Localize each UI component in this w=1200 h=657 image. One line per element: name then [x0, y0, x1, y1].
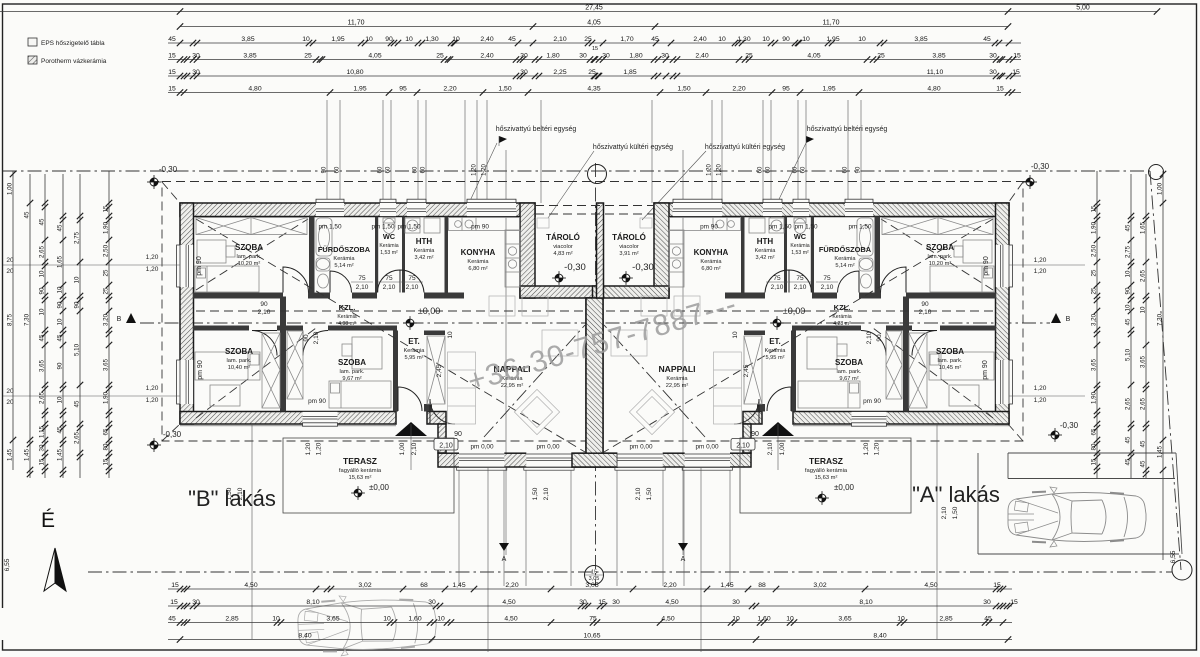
svg-text:±0,00: ±0,00: [369, 483, 390, 492]
svg-text:4,80: 4,80: [248, 86, 261, 93]
KZL r: [832, 303, 851, 327]
svg-text:10: 10: [786, 616, 794, 623]
svg-text:KZL.: KZL.: [834, 303, 851, 312]
svg-text:1,00: 1,00: [779, 442, 786, 455]
svg-text:pm 1,50: pm 1,50: [794, 224, 818, 231]
svg-text:45: 45: [39, 218, 46, 225]
ET south step: [424, 404, 432, 412]
svg-text:90: 90: [751, 431, 759, 438]
FURDOSZOBA: [318, 245, 371, 269]
pm labels: [196, 224, 990, 451]
svg-text:65: 65: [103, 428, 110, 435]
axis circle top right: [1149, 165, 1164, 180]
svg-text:Kerámia: Kerámia: [333, 256, 355, 262]
svg-text:10: 10: [272, 616, 280, 623]
window south living 1: [459, 452, 504, 468]
svg-text:1,95: 1,95: [331, 36, 344, 43]
svg-text:8,10: 8,10: [306, 599, 319, 606]
svg-text:90: 90: [1125, 287, 1132, 294]
axis circle bottom right (partial): [1172, 560, 1192, 580]
svg-text:15: 15: [1010, 599, 1018, 606]
svg-text:45: 45: [168, 36, 176, 43]
svg-text:6,55: 6,55: [4, 558, 11, 571]
furniture ET cabinet: [427, 336, 445, 404]
SZOBA 10,20: [235, 243, 263, 267]
svg-text:10: 10: [732, 331, 739, 339]
svg-text:90: 90: [57, 362, 64, 369]
svg-text:4,50: 4,50: [665, 599, 678, 606]
svg-text:1,90: 1,90: [103, 391, 110, 404]
svg-text:pm 90: pm 90: [863, 398, 881, 405]
NAPPALI left: [493, 364, 530, 389]
furniture SZOBA2 (10,40): [195, 333, 280, 408]
roof overhang dashed rectangle: [162, 182, 1023, 442]
svg-text:2,75: 2,75: [1125, 245, 1132, 258]
window south living 2: [526, 452, 571, 468]
svg-text:pm 0,00: pm 0,00: [470, 444, 494, 451]
svg-text:1,20: 1,20: [316, 442, 323, 455]
storage divider wall: [597, 203, 604, 298]
svg-text:3,85: 3,85: [241, 36, 254, 43]
svg-text:2,20: 2,20: [663, 582, 676, 589]
door SZOBA3: [303, 331, 328, 356]
svg-text:2,10: 2,10: [635, 487, 642, 500]
svg-text:75: 75: [796, 275, 804, 282]
svg-text:1,20: 1,20: [863, 442, 870, 455]
svg-text:60: 60: [793, 166, 799, 173]
svg-text:11,10: 11,10: [927, 69, 944, 76]
svg-text:60: 60: [413, 166, 419, 173]
svg-text:pm 1,50: pm 1,50: [371, 224, 395, 231]
svg-text:1,45: 1,45: [57, 448, 64, 461]
svg-text:TÁROLÓ: TÁROLÓ: [546, 233, 580, 242]
svg-text:2,40: 2,40: [695, 53, 708, 60]
svg-text:30: 30: [661, 53, 669, 60]
ET r: [765, 337, 787, 361]
svg-text:60: 60: [386, 166, 392, 173]
section line B-B dash-dot: [140, 322, 1050, 324]
svg-text:2,10: 2,10: [553, 36, 566, 43]
partition WC/HTH: [402, 217, 405, 293]
svg-text:25: 25: [103, 269, 110, 276]
svg-text:1,65: 1,65: [1140, 221, 1147, 234]
svg-text:30: 30: [520, 69, 528, 76]
svg-text:pm 90: pm 90: [471, 224, 489, 231]
svg-text:-0,30: -0,30: [163, 430, 182, 439]
svg-text:3,65: 3,65: [838, 616, 851, 623]
svg-text:viacolor: viacolor: [619, 244, 639, 250]
svg-text:ET.: ET.: [408, 337, 420, 346]
svg-text:hőszivattyú kültéri egység: hőszivattyú kültéri egység: [593, 144, 673, 151]
svg-text:15: 15: [170, 599, 178, 606]
window top WC: [380, 199, 396, 216]
svg-text:hőszivattyú beltéri egység: hőszivattyú beltéri egység: [496, 126, 577, 133]
svg-text:45: 45: [74, 400, 81, 407]
SZOBA 10,40: [225, 347, 253, 371]
svg-text:1,60: 1,60: [408, 616, 421, 623]
HTH r: [755, 237, 777, 261]
svg-text:15,63 m²: 15,63 m²: [349, 475, 372, 481]
svg-text:2,75: 2,75: [74, 231, 81, 244]
svg-text:5,10: 5,10: [74, 343, 81, 356]
svg-text:22,95 m²: 22,95 m²: [666, 383, 689, 389]
svg-text:60: 60: [421, 166, 427, 173]
svg-text:1,20: 1,20: [707, 164, 713, 176]
svg-text:2,85: 2,85: [225, 616, 238, 623]
svg-text:10: 10: [437, 616, 445, 623]
svg-text:25: 25: [877, 53, 885, 60]
svg-text:2,40: 2,40: [480, 53, 493, 60]
svg-text:6,80 m²: 6,80 m²: [701, 266, 720, 272]
svg-text:27,45: 27,45: [585, 5, 603, 12]
svg-text:WC: WC: [383, 232, 396, 241]
svg-text:pm 1,50: pm 1,50: [768, 224, 792, 231]
svg-text:15: 15: [592, 46, 598, 52]
svg-text:10: 10: [447, 331, 454, 339]
svg-text:75: 75: [385, 275, 393, 282]
property boundary dash-dot bottom: [88, 571, 1172, 573]
svg-text:1,45: 1,45: [7, 448, 14, 461]
svg-text:15: 15: [1091, 205, 1098, 212]
svg-text:10: 10: [1125, 304, 1132, 311]
svg-text:TERASZ: TERASZ: [809, 456, 843, 466]
svg-text:10: 10: [302, 36, 310, 43]
site walkway lines: [252, 424, 937, 652]
svg-text:25: 25: [588, 69, 596, 76]
svg-text:1,95: 1,95: [826, 36, 839, 43]
svg-text:10: 10: [39, 270, 46, 277]
svg-text:10: 10: [39, 308, 46, 315]
svg-text:1,95: 1,95: [822, 86, 835, 93]
svg-text:15: 15: [171, 582, 179, 589]
svg-text:25: 25: [584, 36, 592, 43]
section marker B left: [126, 313, 136, 323]
svg-text:EPS hőszigetelő tábla: EPS hőszigetelő tábla: [41, 40, 105, 47]
svg-text:90: 90: [303, 334, 310, 342]
svg-text:3,05: 3,05: [585, 582, 598, 589]
svg-text:SZOBA: SZOBA: [936, 347, 964, 356]
svg-text:10: 10: [365, 36, 373, 43]
svg-text:45: 45: [1125, 224, 1132, 231]
svg-text:1,50: 1,50: [677, 86, 690, 93]
svg-text:4,05: 4,05: [587, 20, 601, 27]
svg-text:5,10: 5,10: [1125, 348, 1132, 361]
svg-text:10,20 m²: 10,20 m²: [238, 261, 261, 267]
svg-text:"A" lakás: "A" lakás: [912, 482, 1000, 507]
outer wall left: [180, 203, 194, 424]
projection lines top: [327, 100, 861, 203]
svg-text:Kerámia: Kerámia: [414, 248, 436, 254]
svg-text:Kerámia: Kerámia: [700, 259, 722, 265]
svg-text:8,40: 8,40: [298, 633, 311, 640]
svg-text:10: 10: [1140, 306, 1147, 313]
svg-text:30: 30: [612, 599, 620, 606]
svg-text:80: 80: [1091, 443, 1098, 450]
storage floor mark: [537, 218, 549, 228]
svg-text:2,10: 2,10: [258, 309, 271, 316]
svg-text:6,55: 6,55: [1170, 550, 1177, 563]
WC r: [790, 232, 809, 256]
svg-text:3,42 m²: 3,42 m²: [415, 255, 434, 261]
svg-text:2,10: 2,10: [543, 487, 550, 500]
svg-text:25: 25: [1091, 287, 1098, 294]
svg-text:1,45: 1,45: [1157, 445, 1164, 458]
level line corridor: [196, 310, 585, 312]
svg-text:45: 45: [1125, 458, 1132, 465]
svg-text:3,85: 3,85: [914, 36, 927, 43]
wall stub at entrance corner: [427, 412, 446, 425]
svg-text:4,05: 4,05: [368, 53, 381, 60]
svg-text:1,20: 1,20: [717, 164, 723, 176]
svg-text:Kerámia: Kerámia: [337, 314, 356, 320]
driveway: [978, 453, 1182, 554]
svg-text:pm 0,00: pm 0,00: [695, 444, 719, 451]
partition HTH/KONYHA: [445, 217, 449, 293]
svg-text:30: 30: [989, 69, 997, 76]
svg-text:45: 45: [984, 616, 992, 623]
svg-text:2,10: 2,10: [736, 443, 750, 450]
svg-text:pm 1,50: pm 1,50: [397, 224, 421, 231]
svg-text:45: 45: [1140, 440, 1147, 447]
svg-text:1,20: 1,20: [146, 254, 159, 261]
svg-text:30: 30: [989, 53, 997, 60]
door FURDOSZOBA: [330, 271, 352, 293]
furniture SZOBA1: wardrobe: [196, 218, 307, 235]
svg-text:15: 15: [591, 570, 597, 576]
svg-text:45: 45: [651, 36, 659, 43]
door WC: [378, 270, 401, 293]
svg-text:SZOBA: SZOBA: [835, 358, 863, 367]
svg-text:75: 75: [823, 275, 831, 282]
svg-text:1,50: 1,50: [952, 506, 959, 519]
svg-text:10: 10: [1125, 270, 1132, 277]
fixture WC: [383, 218, 395, 234]
svg-text:FÜRDŐSZOBA: FÜRDŐSZOBA: [819, 245, 872, 254]
svg-text:30: 30: [520, 53, 528, 60]
svg-text:fagyálló kerámia: fagyálló kerámia: [805, 468, 848, 474]
svg-text:SZOBA: SZOBA: [225, 347, 253, 356]
svg-text:10: 10: [897, 616, 905, 623]
svg-text:11,70: 11,70: [348, 20, 365, 27]
svg-text:ET.: ET.: [769, 337, 781, 346]
svg-text:HTH: HTH: [757, 237, 774, 246]
window bottom SZOBA3: [303, 412, 338, 427]
svg-text:30: 30: [192, 53, 200, 60]
partition FURDO/WC: [375, 217, 378, 293]
svg-text:Porotherm vázkerámia: Porotherm vázkerámia: [41, 58, 107, 65]
corridor north wall segments: [193, 293, 283, 299]
svg-text:pm 1,50: pm 1,50: [318, 224, 342, 231]
svg-text:3,42 m²: 3,42 m²: [756, 255, 775, 261]
svg-text:90: 90: [876, 334, 883, 342]
svg-text:-0,30: -0,30: [159, 165, 178, 174]
door ET/SZOBA3: [398, 387, 422, 411]
svg-text:1,90: 1,90: [103, 221, 110, 234]
svg-text:95: 95: [782, 86, 790, 93]
party wall south pier: [572, 453, 617, 467]
svg-text:4,05: 4,05: [807, 53, 820, 60]
svg-text:1,60: 1,60: [757, 616, 770, 623]
NAPPALI right: [658, 364, 695, 389]
svg-text:1,00: 1,00: [399, 442, 406, 455]
SZOBA 10,40 r: [936, 347, 964, 371]
svg-text:1,30: 1,30: [425, 36, 438, 43]
svg-text:75: 75: [358, 275, 366, 282]
svg-text:1,00: 1,00: [1157, 182, 1164, 195]
svg-text:15: 15: [168, 69, 176, 76]
svg-text:15: 15: [168, 53, 176, 60]
svg-text:10: 10: [732, 616, 740, 623]
svg-text:pm 90: pm 90: [196, 256, 203, 276]
svg-text:-0,30: -0,30: [632, 262, 654, 273]
svg-text:2,65: 2,65: [39, 391, 46, 404]
SZOBA 9,67: [338, 358, 366, 382]
svg-text:2,25: 2,25: [553, 69, 566, 76]
svg-text:hőszivattyú beltéri egység: hőszivattyú beltéri egység: [807, 126, 888, 133]
svg-text:9,67 m²: 9,67 m²: [839, 376, 858, 382]
svg-text:4,98 m²: 4,98 m²: [338, 321, 356, 327]
svg-text:pm 0,00: pm 0,00: [536, 444, 560, 451]
svg-text:10,20 m²: 10,20 m²: [929, 261, 952, 267]
outer wall bottom bedrooms: [180, 412, 396, 425]
svg-text:1,53 m²: 1,53 m²: [791, 250, 809, 256]
svg-text:1,90: 1,90: [1091, 391, 1098, 404]
svg-text:3,65: 3,65: [39, 359, 46, 372]
KZL left: [337, 303, 356, 327]
svg-text:1,50: 1,50: [532, 487, 539, 500]
svg-text:1,20: 1,20: [1034, 268, 1047, 275]
svg-text:60: 60: [335, 166, 341, 173]
svg-text:30: 30: [579, 599, 587, 606]
terrace A: [740, 438, 911, 513]
svg-text:10,40 m²: 10,40 m²: [228, 365, 251, 371]
svg-text:1,20: 1,20: [146, 397, 159, 404]
svg-text:pm 90: pm 90: [197, 360, 204, 380]
svg-text:15: 15: [39, 458, 46, 465]
storage front dashes: [535, 205, 654, 207]
partition SZOBA1/FURDO: [309, 217, 315, 293]
svg-text:lam. park.: lam. park.: [340, 369, 365, 375]
window left wall SZOBA1: [177, 245, 194, 287]
svg-text:4,50: 4,50: [924, 582, 937, 589]
svg-text:75: 75: [408, 275, 416, 282]
svg-text:1,30: 1,30: [737, 36, 750, 43]
svg-text:Kerámia: Kerámia: [404, 348, 426, 354]
svg-text:B: B: [117, 316, 122, 323]
svg-text:1,20: 1,20: [874, 442, 881, 455]
svg-text:4,50: 4,50: [504, 616, 517, 623]
svg-text:2,10: 2,10: [767, 442, 774, 455]
WC: [379, 232, 398, 256]
svg-text:1,00: 1,00: [7, 182, 14, 195]
svg-text:90: 90: [454, 431, 462, 438]
svg-text:45: 45: [57, 334, 64, 341]
axis circle bottom center: [585, 566, 604, 585]
party wall: [586, 298, 603, 454]
svg-text:TERASZ: TERASZ: [343, 456, 377, 466]
svg-text:80: 80: [103, 443, 110, 450]
window left wall SZOBA2: [177, 360, 194, 404]
svg-text:1,20: 1,20: [472, 164, 478, 176]
svg-text:45: 45: [57, 426, 64, 433]
FURDOSZOBA r: [819, 245, 872, 269]
svg-text:2,10: 2,10: [406, 284, 419, 291]
svg-text:pm 1,50: pm 1,50: [848, 224, 872, 231]
svg-text:2,45: 2,45: [743, 364, 750, 377]
svg-text:2,65: 2,65: [39, 245, 46, 258]
svg-text:SZOBA: SZOBA: [926, 243, 954, 252]
svg-text:3,20: 3,20: [103, 313, 110, 326]
svg-text:2,65: 2,65: [1125, 397, 1132, 410]
svg-text:2,20: 2,20: [443, 86, 456, 93]
svg-text:65: 65: [1091, 428, 1098, 435]
svg-text:10: 10: [718, 36, 726, 43]
svg-text:8,75: 8,75: [7, 313, 14, 326]
svg-text:30: 30: [428, 599, 436, 606]
svg-text:90: 90: [385, 36, 393, 43]
svg-text:1,20: 1,20: [1034, 257, 1047, 264]
right slanted property line: [1150, 171, 1181, 570]
furniture SZOBA1: desk+chair: [197, 240, 235, 263]
svg-text:2,40: 2,40: [693, 36, 706, 43]
svg-text:30: 30: [192, 599, 200, 606]
svg-text:"B" lakás: "B" lakás: [188, 486, 276, 511]
svg-text:pm 90: pm 90: [982, 360, 989, 380]
svg-text:30: 30: [39, 444, 46, 451]
svg-text:45: 45: [1140, 460, 1147, 467]
svg-text:B: B: [1066, 316, 1071, 323]
section marker A bottom: [499, 543, 509, 551]
svg-text:2,40: 2,40: [480, 36, 493, 43]
svg-text:5,95 m²: 5,95 m²: [766, 355, 785, 361]
svg-text:4,35: 4,35: [587, 86, 600, 93]
furniture SZOBA3 (9,67): [287, 331, 391, 408]
svg-text:lam. park.: lam. park.: [928, 254, 953, 260]
svg-text:2,20: 2,20: [732, 86, 745, 93]
svg-text:60: 60: [758, 166, 764, 173]
svg-text:1,20: 1,20: [1034, 397, 1047, 404]
svg-text:60: 60: [378, 166, 384, 173]
svg-text:30: 30: [192, 69, 200, 76]
svg-text:KZL.: KZL.: [339, 303, 356, 312]
svg-text:4,50: 4,50: [661, 616, 674, 623]
svg-text:pm 90: pm 90: [983, 256, 990, 276]
svg-text:10: 10: [858, 36, 866, 43]
legend Porotherm: [28, 56, 107, 65]
svg-text:1,20: 1,20: [146, 266, 159, 273]
svg-text:4,28 m²: 4,28 m²: [833, 321, 851, 327]
svg-text:1,50: 1,50: [646, 487, 653, 500]
svg-text:2,10: 2,10: [941, 506, 948, 519]
ET: [404, 337, 426, 361]
svg-text:-0,30: -0,30: [1060, 421, 1079, 430]
HTH: [414, 237, 436, 261]
svg-text:10: 10: [57, 318, 64, 325]
svg-text:15: 15: [103, 458, 110, 465]
svg-text:hőszivattyú kültéri egység: hőszivattyú kültéri egység: [705, 144, 785, 151]
terrace B: [283, 438, 454, 513]
svg-text:lam. park.: lam. park.: [837, 369, 862, 375]
svg-text:lam. park.: lam. park.: [237, 254, 262, 260]
svg-text:15: 15: [1013, 53, 1021, 60]
svg-text:2,20: 2,20: [505, 582, 518, 589]
svg-text:30: 30: [602, 53, 610, 60]
svg-text:90: 90: [782, 36, 790, 43]
svg-text:3,02: 3,02: [358, 582, 371, 589]
svg-text:45: 45: [983, 36, 991, 43]
fixtures FURDOSZOBA: [316, 218, 332, 288]
svg-text:5,00: 5,00: [1076, 5, 1090, 12]
